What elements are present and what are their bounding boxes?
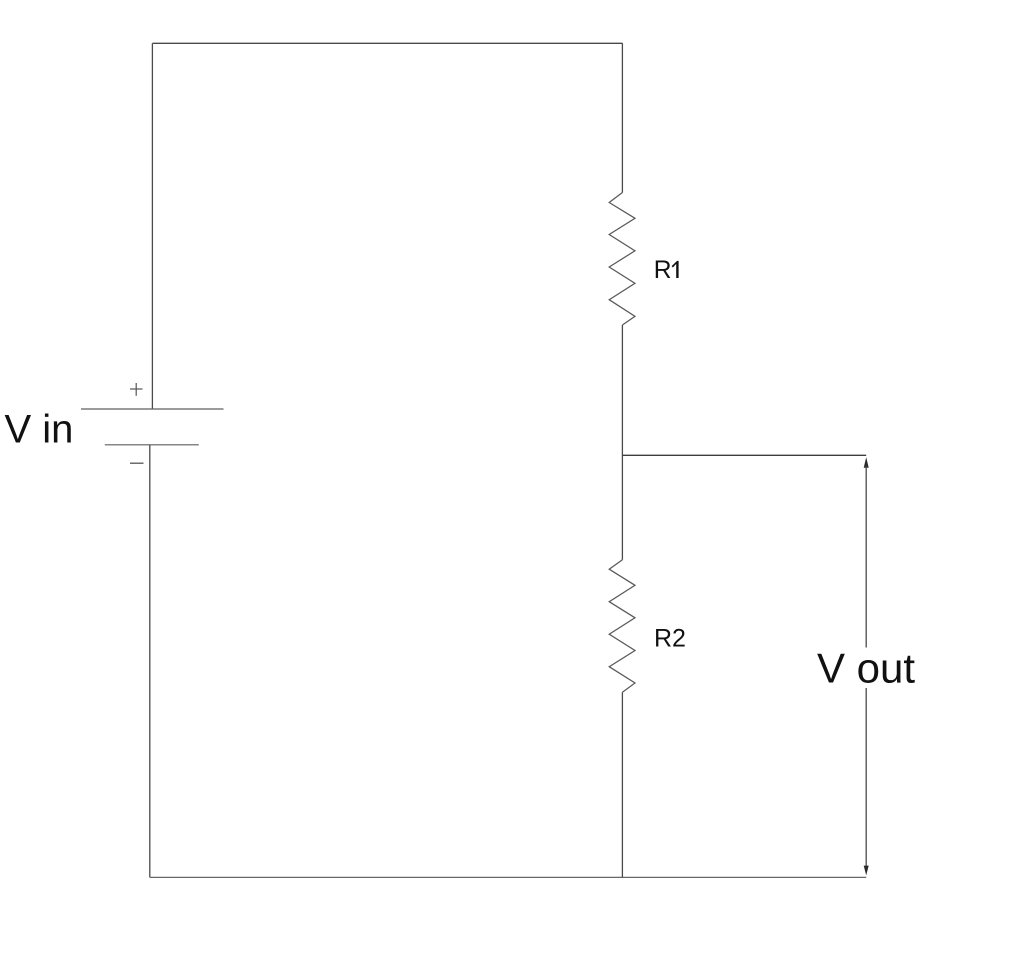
wire left vertical lower — [149, 445, 151, 878]
Vout dimension arrowhead down — [864, 866, 869, 876]
svg-text:R2: R2 — [654, 625, 686, 653]
Vout dimension line lower segment — [865, 688, 867, 867]
wire middle vertical upper — [621, 43, 623, 192]
Vout dimension arrowhead up — [864, 457, 869, 468]
svg-text:R: R — [654, 257, 672, 284]
battery V source negative plate — [105, 444, 199, 446]
wire middle vertical below R2 — [621, 692, 623, 877]
resistor R2 — [609, 560, 635, 693]
battery V source positive plate — [81, 408, 224, 410]
wire junction horizontal to Vout node — [622, 454, 866, 456]
wire bottom horizontal — [150, 876, 866, 878]
Vout dimension line upper segment — [865, 466, 867, 648]
battery minus polarity mark — [130, 462, 144, 464]
svg-text:V out: V out — [817, 645, 915, 692]
wire middle vertical between R1 and R2 — [621, 325, 623, 560]
resistor R1 — [609, 193, 635, 326]
svg-text:V in: V in — [5, 408, 74, 452]
wire top horizontal — [153, 42, 623, 44]
battery plus polarity mark — [130, 383, 143, 396]
wire left vertical upper — [151, 43, 153, 409]
